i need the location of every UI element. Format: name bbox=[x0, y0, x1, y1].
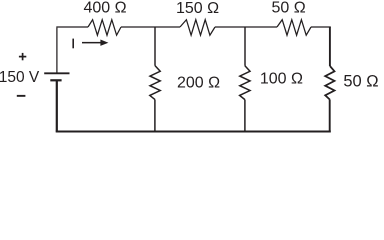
svg-text:150 Ω: 150 Ω bbox=[176, 0, 219, 17]
resistor 50 ohm top bbox=[277, 20, 311, 36]
wire top right corner bbox=[311, 26, 331, 28]
wire node A bbox=[121, 26, 180, 28]
battery long plate positive bbox=[44, 72, 69, 74]
svg-text:50 Ω: 50 Ω bbox=[271, 0, 305, 17]
wire bottom rail bbox=[56, 130, 331, 132]
resistor 400 ohm bbox=[88, 20, 121, 36]
battery short plate negative bbox=[50, 79, 61, 81]
wire branch 100 ohm bottom bbox=[244, 100, 246, 132]
resistor 100 ohm vertical bbox=[240, 66, 250, 100]
wire right to bottom rail bbox=[329, 100, 331, 132]
label I current bbox=[72, 39, 74, 49]
svg-text:50 Ω: 50 Ω bbox=[343, 73, 378, 91]
wire battery bottom stub bbox=[56, 81, 58, 132]
wire battery top to 400 ohm bbox=[56, 28, 58, 73]
battery minus sign bbox=[17, 95, 26, 97]
resistor 150 ohm bbox=[180, 20, 215, 36]
wire branch 200 ohm bottom bbox=[154, 100, 156, 132]
resistor 200 ohm vertical bbox=[150, 66, 160, 100]
battery plus sign bbox=[19, 53, 26, 60]
svg-text:400 Ω: 400 Ω bbox=[83, 0, 126, 16]
svg-text:200 Ω: 200 Ω bbox=[177, 75, 220, 92]
svg-text:100 Ω: 100 Ω bbox=[260, 71, 303, 88]
wire branch 100 ohm top bbox=[244, 27, 246, 66]
wire branch 200 ohm top bbox=[154, 27, 156, 66]
wire node B bbox=[215, 26, 277, 28]
svg-text:150 V: 150 V bbox=[0, 69, 40, 86]
current arrow bbox=[82, 40, 108, 46]
resistor 50 ohm right vertical bbox=[325, 66, 334, 100]
